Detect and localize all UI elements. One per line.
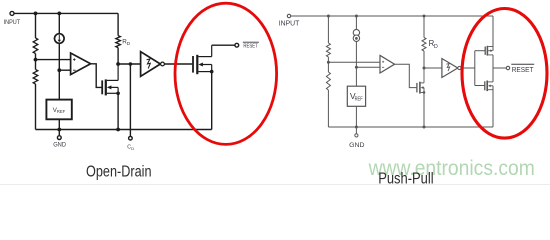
wire tap to op-amp IN+ (left) bbox=[36, 59, 71, 61]
svg-text:REF: REF bbox=[57, 109, 66, 114]
svg-text:Open-Drain: Open-Drain bbox=[86, 164, 152, 181]
transistor M3 (right internal NMOS) bbox=[417, 68, 424, 94]
wire ground rail (right) bbox=[328, 126, 493, 128]
wire PMOS source to rail (right) bbox=[492, 16, 494, 51]
wire CD vertical (left) bbox=[129, 64, 131, 136]
junction current-source top (right) bbox=[355, 15, 358, 18]
wire top rail (right) bbox=[291, 15, 493, 17]
wire RD bottom (left) bbox=[117, 48, 119, 64]
junction M3 source (right) bbox=[423, 91, 426, 94]
watermark www.entronics.com bbox=[368, 156, 535, 180]
current source I2 (right) bbox=[353, 29, 359, 41]
label RD (left) bbox=[122, 38, 131, 46]
junction divider top (left) bbox=[34, 12, 38, 16]
terminal INPUT (right) bbox=[279, 14, 300, 27]
wire divider upper (left) bbox=[35, 13, 37, 38]
faint page rule at bottom bbox=[0, 184, 550, 186]
wire inverter output to M2 gate (left) bbox=[164, 63, 192, 65]
annotation ellipse (right, circles push-pull stage) bbox=[462, 9, 547, 139]
terminal GND (right) bbox=[349, 127, 365, 149]
transistor M1 (left internal NMOS) bbox=[102, 64, 118, 95]
node divider midpoint (right) bbox=[327, 61, 330, 64]
block VREF (right) bbox=[347, 86, 365, 106]
wire divider middle (left) bbox=[35, 54, 37, 70]
caption Open-Drain bbox=[86, 164, 152, 181]
wire top rail (left) bbox=[14, 12, 118, 14]
junction M1 source on rail (left) bbox=[116, 128, 120, 132]
junction current-source top (left) bbox=[57, 12, 61, 16]
svg-text:GND: GND bbox=[53, 142, 66, 148]
transistor M2 (left open-drain output NMOS) bbox=[193, 45, 212, 74]
node CD tap (left) bbox=[129, 62, 133, 66]
wire divider mid (right) bbox=[327, 57, 329, 72]
svg-text:RESET: RESET bbox=[512, 65, 534, 74]
node M3 drain / RD (right) bbox=[423, 67, 426, 70]
junction M3 source on rail (right) bbox=[423, 126, 426, 129]
wire gate bus vertical (right) bbox=[474, 51, 476, 86]
current source I1 (left) bbox=[55, 34, 65, 44]
wire RD top (right) bbox=[423, 16, 425, 38]
wire divider upper (right) bbox=[327, 16, 329, 43]
transistor M5 (right push-pull NMOS) bbox=[485, 81, 493, 92]
terminal RESET (left) bbox=[235, 42, 259, 50]
wire current-source feed (right) bbox=[355, 16, 357, 30]
wire inverter output to gates (right) bbox=[461, 67, 475, 69]
svg-text:GND: GND bbox=[349, 142, 365, 149]
wire current-source top (left) bbox=[58, 13, 60, 33]
wire M2 drain to RESET terminal (left) bbox=[212, 44, 235, 46]
transistor M4 (right push-pull PMOS) bbox=[485, 46, 493, 56]
annotation ellipse (left, circles output FET) bbox=[175, 3, 277, 144]
wire M1 source to ground rail (left) bbox=[117, 93, 119, 129]
resistor R4 (right divider lower) bbox=[326, 72, 330, 90]
node divider midpoint (left) bbox=[34, 58, 38, 62]
svg-text:D: D bbox=[434, 44, 438, 50]
wire reference vertical (right) bbox=[355, 41, 357, 86]
svg-text:INPUT: INPUT bbox=[279, 19, 300, 28]
svg-text:RESET: RESET bbox=[243, 44, 258, 50]
resistor RD (right) bbox=[422, 38, 426, 52]
wire to P-FET gate (right) bbox=[475, 50, 485, 52]
wire op-amp output to M3 gate (right) bbox=[395, 64, 417, 87]
resistor RD (left) bbox=[116, 36, 121, 48]
wire ground rail (left) bbox=[36, 129, 212, 131]
svg-text:D: D bbox=[127, 41, 131, 46]
wire divider lower (right) bbox=[327, 90, 329, 127]
wire op-amp output to M1 gate (left) bbox=[91, 64, 102, 88]
wire divider lower (left) bbox=[35, 84, 37, 130]
op-amp U3 (right comparator) bbox=[380, 55, 395, 73]
svg-text:REF: REF bbox=[355, 97, 363, 103]
wire output node vertical (right) bbox=[492, 55, 494, 82]
resistor R1 (left divider upper) bbox=[33, 38, 38, 54]
wire M3 source to rail (right) bbox=[423, 92, 425, 127]
op-amp U1 (left comparator) bbox=[71, 53, 91, 75]
wire to op-amp IN- (right) bbox=[356, 66, 380, 68]
junction divider top (right) bbox=[327, 15, 330, 18]
wire VREF to rail (left) bbox=[58, 119, 60, 129]
terminal GND (left) bbox=[53, 130, 66, 149]
junction M2 body-source (left) bbox=[210, 70, 214, 74]
wire drain node to inverter (right) bbox=[424, 67, 442, 69]
wire to op-amp IN- (left) bbox=[59, 69, 70, 71]
node reference / IN- tap (left) bbox=[57, 68, 61, 72]
label RD (right) bbox=[429, 39, 438, 50]
junction VREF-GND on rail (right) bbox=[355, 126, 358, 129]
terminal INPUT (left) bbox=[4, 11, 21, 25]
node reference tap (right) bbox=[355, 66, 358, 69]
resistor R3 (right divider upper) bbox=[326, 43, 330, 57]
terminal CD (left) bbox=[127, 136, 134, 150]
svg-text:D: D bbox=[131, 146, 134, 151]
svg-text:Push-Pull: Push-Pull bbox=[378, 171, 433, 187]
inverter U2 (left) bbox=[141, 52, 165, 77]
node M1 drain / RD (left) bbox=[116, 62, 120, 66]
wire RD bottom (right) bbox=[423, 51, 425, 68]
svg-text:INPUT: INPUT bbox=[4, 19, 21, 26]
wire M2 source down (left) bbox=[211, 72, 213, 130]
wire RD top (left) bbox=[117, 13, 119, 35]
junction GND stub (left) bbox=[57, 128, 61, 132]
wire tap to op-amp (right) bbox=[328, 61, 380, 63]
wire VREF to rail (right) bbox=[355, 106, 357, 127]
resistor R2 (left divider lower) bbox=[33, 70, 38, 85]
caption Push-Pull bbox=[378, 171, 433, 188]
block VREF (left) bbox=[46, 100, 71, 120]
wire to N-FET gate (right) bbox=[475, 85, 485, 87]
wire drain node to inverter (left) bbox=[118, 63, 141, 65]
terminal RESET (right) bbox=[506, 64, 534, 74]
wire output to RESET terminal (right) bbox=[493, 67, 506, 69]
wire NMOS source to rail (right) bbox=[492, 86, 494, 127]
junction RD top (right) bbox=[423, 15, 426, 18]
inverter U4 (right) bbox=[442, 59, 461, 78]
wire reference vertical (left) bbox=[58, 43, 60, 99]
junction M1 body-source (left) bbox=[116, 92, 120, 96]
